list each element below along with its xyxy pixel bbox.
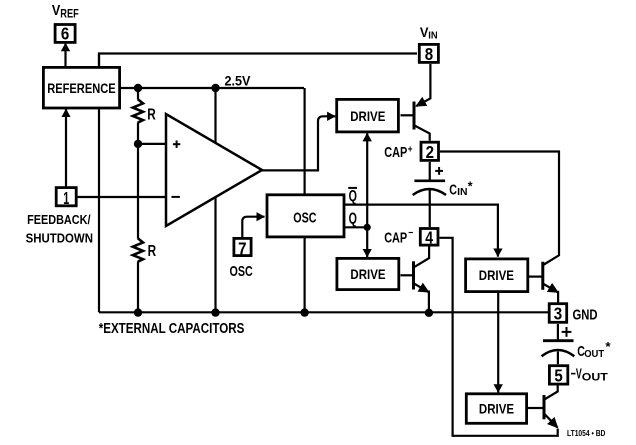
svg-text:LT1054 • BD: LT1054 • BD [567,429,606,438]
svg-text:2.5V: 2.5V [225,72,252,88]
svg-text:OUT: OUT [582,372,608,384]
svg-text:R: R [147,107,156,124]
svg-text:V: V [52,3,61,19]
svg-text:CAP: CAP [384,144,407,161]
svg-text:6: 6 [61,24,70,44]
svg-text:−: − [408,227,413,239]
svg-text:+: + [408,144,413,156]
svg-text:DRIVE: DRIVE [479,401,514,417]
svg-text:4: 4 [425,227,433,247]
svg-text:*EXTERNAL CAPACITORS: *EXTERNAL CAPACITORS [99,321,245,337]
svg-text:OSC: OSC [293,209,316,226]
svg-text:GND: GND [573,307,598,324]
svg-text:R: R [148,243,157,260]
svg-text:DRIVE: DRIVE [350,266,385,282]
svg-text:7: 7 [238,238,246,258]
svg-text:Q: Q [349,211,357,228]
svg-text:−V: −V [571,365,582,382]
svg-text:C: C [449,181,457,198]
svg-text:REFERENCE: REFERENCE [47,80,116,96]
svg-text:2: 2 [426,142,435,162]
svg-text:FEEDBACK/: FEEDBACK/ [27,212,91,227]
svg-text:DRIVE: DRIVE [350,108,385,124]
svg-text:IN: IN [428,30,437,42]
svg-text:3: 3 [554,304,563,324]
svg-text:8: 8 [425,44,434,64]
svg-text:CAP: CAP [384,229,407,246]
svg-text:OSC: OSC [230,263,253,280]
svg-text:IN: IN [457,186,467,198]
svg-text:REF: REF [60,6,79,20]
svg-text:1: 1 [63,188,69,208]
svg-text:OUT: OUT [584,348,605,360]
svg-text:5: 5 [554,365,563,385]
svg-text:DRIVE: DRIVE [479,267,514,283]
svg-text:Q: Q [349,188,357,205]
svg-text:SHUTDOWN: SHUTDOWN [26,231,93,246]
